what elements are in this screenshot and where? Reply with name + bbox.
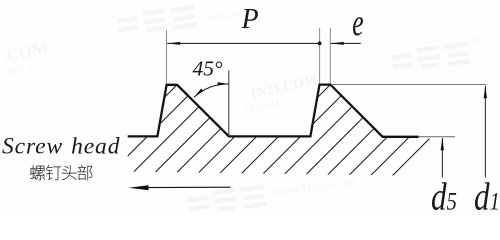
svg-text:Screwhead: Screwhead [2, 133, 120, 159]
d1 dimension [484, 86, 486, 178]
watermark right logo [391, 43, 471, 72]
svg-text:.COM: .COM [1, 38, 50, 66]
extension line e left [319, 28, 321, 84]
hatching [66, 61, 500, 196]
crest thin extension (d1) [331, 84, 486, 86]
label d1 [474, 175, 500, 218]
svg-text:144-50: 144-50 [454, 34, 481, 48]
extension line e right [329, 28, 331, 84]
dimension line P [167, 42, 319, 44]
svg-text:IN21.COM: IN21.COM [250, 73, 319, 102]
label d5 [431, 175, 457, 218]
extension line P left [166, 30, 168, 83]
45deg arc [194, 84, 228, 97]
bottom direction arrow [147, 186, 231, 188]
label CJK 螺钉头部 [30, 165, 92, 180]
d5 dimension [441, 138, 443, 178]
label e [352, 1, 363, 43]
profile outline [128, 85, 419, 137]
dimension line e [331, 42, 361, 44]
svg-text:P: P [241, 4, 259, 35]
svg-text:FIJIN21: FIJIN21 [243, 97, 281, 116]
45deg reference vertical [228, 70, 230, 136]
svg-text:45°: 45° [193, 57, 224, 81]
svg-text:e: e [352, 1, 363, 43]
watermark top-left logo [117, 6, 197, 35]
svg-text:d1: d1 [474, 175, 500, 212]
svg-text:WWW.YIJIN21.COM: WWW.YIJIN21.COM [274, 177, 356, 198]
surface thin extension (d5) [419, 136, 456, 138]
watermark bottom logo [187, 186, 267, 215]
svg-text:d5: d5 [431, 175, 457, 212]
